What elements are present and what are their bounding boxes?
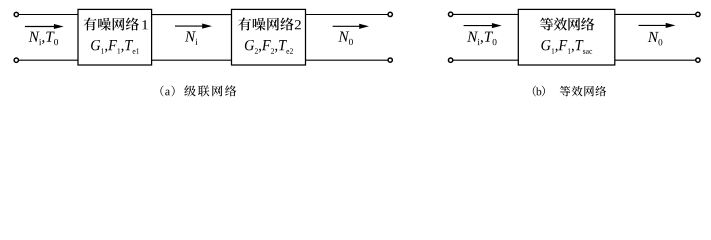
terminal output bottom (b) <box>696 58 700 62</box>
caption (a) close paren <box>171 86 174 97</box>
label block2 title 有噪网络2 <box>238 18 293 31</box>
block U1 noisy network 1 <box>78 9 152 65</box>
label block2 digit 2 <box>295 20 301 29</box>
arrow input signal flow (b) <box>464 23 502 28</box>
wire output bottom (b) <box>615 59 696 61</box>
terminal input top (b) <box>448 12 452 16</box>
arrow input signal flow (a) <box>25 24 64 29</box>
caption (b) letter <box>536 87 541 95</box>
block U3 equivalent network <box>518 9 615 65</box>
label block1 params G1,F1,Te1 <box>91 40 139 54</box>
label N_0 output (a) <box>338 32 353 46</box>
wire between networks top (a) <box>152 14 232 16</box>
wire input bottom (b) <box>453 59 518 61</box>
terminal output top (a) <box>388 12 392 16</box>
label N_i,T_0 input (b) <box>467 32 496 46</box>
caption (a) 级联网络 <box>184 85 236 96</box>
arrow intermediate signal flow (a) <box>175 24 212 29</box>
label N_0 output (b) <box>648 32 663 46</box>
label N_i intermediate (a) <box>185 31 198 44</box>
label block3 title 等效网络 <box>540 18 594 31</box>
caption (a) letter <box>165 90 170 96</box>
label block1 title 有噪网络1 <box>84 18 139 31</box>
terminal input top (a) <box>14 12 18 16</box>
wire output top (a) <box>306 14 389 16</box>
label block3 params G1,F1,Tsac <box>541 40 592 54</box>
terminal output bottom (a) <box>388 58 392 62</box>
terminal output top (b) <box>696 12 700 16</box>
terminal input bottom (a) <box>14 58 18 62</box>
wire between networks bottom (a) <box>152 59 232 61</box>
label block2 params G2,F2,Te2 <box>245 40 293 54</box>
wire output bottom (a) <box>306 59 389 61</box>
label block1 digit 1 <box>142 20 147 29</box>
caption (b) close paren <box>542 86 545 97</box>
wire output top (b) <box>615 13 696 15</box>
wire input top (a) <box>19 14 78 16</box>
arrow output signal flow (b) <box>639 23 676 28</box>
wire input top (b) <box>453 13 518 15</box>
terminal input bottom (b) <box>448 58 452 62</box>
label N_i,T_0 input (a) <box>29 32 58 46</box>
caption (b) 等效网络 <box>560 86 606 97</box>
arrow output signal flow (a) <box>333 24 369 29</box>
wire input bottom (a) <box>19 59 78 61</box>
caption (b) open paren <box>533 86 536 97</box>
caption (a) open paren <box>160 86 163 97</box>
block U2 noisy network 2 <box>232 9 306 65</box>
